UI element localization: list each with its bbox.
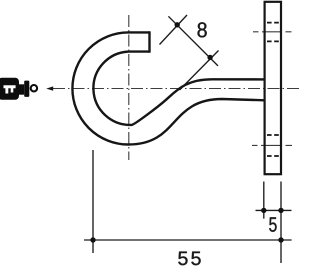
weight body bbox=[0, 78, 19, 100]
dim 55 extension line left bbox=[92, 150, 94, 253]
dim 8 dimension line bbox=[168, 16, 218, 66]
dim 5 extension line right bbox=[280, 182, 282, 264]
weight label F (rotated 90deg) bbox=[4, 85, 16, 93]
dim 55 label bbox=[178, 252, 187, 266]
dim 8 extension line lower bbox=[180, 51, 219, 91]
dim 55 dot left bbox=[90, 237, 95, 242]
force arrowhead bbox=[46, 86, 53, 90]
hook stub end face bbox=[148, 31, 150, 52]
dim 8 extension line upper bbox=[160, 15, 188, 45]
dim 55 dimension line bbox=[84, 239, 292, 241]
dim 55 dot right bbox=[278, 237, 283, 242]
dim 5 label bbox=[269, 217, 276, 231]
hidden line upper hole top bbox=[267, 22, 279, 24]
dim 5 dot left bbox=[261, 208, 266, 213]
centerline upper hole bbox=[253, 31, 293, 33]
hidden line upper hole bottom bbox=[267, 40, 279, 42]
hook outer contour bbox=[72, 32, 264, 144]
wall plate bbox=[265, 2, 281, 174]
dim 5 extension line left bbox=[263, 182, 265, 219]
weight ring bbox=[31, 85, 37, 91]
dim 5 dimension line bbox=[256, 209, 292, 211]
weight neck bbox=[19, 84, 24, 94]
centerline horizontal (hook axis) bbox=[53, 88, 299, 90]
dim 5 dot right bbox=[278, 208, 283, 213]
hidden line lower hole top bbox=[267, 134, 279, 136]
centerline vertical (hook axis) bbox=[128, 15, 130, 160]
centerline lower hole bbox=[252, 144, 294, 146]
weight knob bbox=[24, 81, 29, 97]
dim 8 label bbox=[198, 22, 207, 37]
dim 8 dot upper bbox=[175, 22, 180, 27]
dim 8 dot lower bbox=[207, 55, 212, 60]
hidden line lower hole bottom bbox=[267, 155, 279, 157]
hook inner contour bbox=[93, 52, 264, 125]
